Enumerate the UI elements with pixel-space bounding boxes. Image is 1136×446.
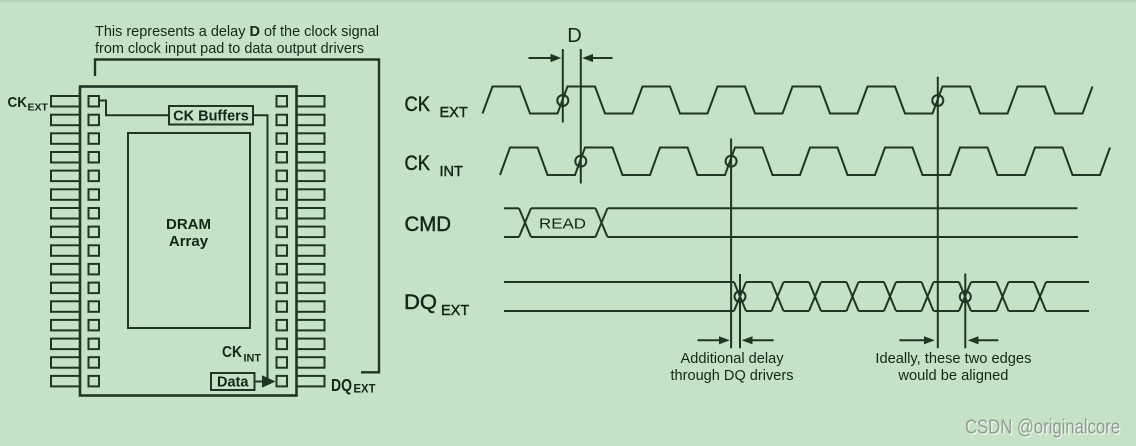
left external pins xyxy=(51,96,80,386)
node circle: CK_INT edge xyxy=(726,156,737,167)
signal label CK_EXT xyxy=(405,92,468,121)
svg-text:CK: CK xyxy=(405,151,431,175)
svg-text:through DQ drivers: through DQ drivers xyxy=(671,368,794,384)
svg-text:CSDN @originalcore: CSDN @originalcore xyxy=(965,417,1120,439)
svg-text:Additional delay: Additional delay xyxy=(681,351,785,367)
annotation text: delay note xyxy=(95,24,379,57)
node circle: CK_EXT edge xyxy=(932,95,943,106)
svg-text:INT: INT xyxy=(440,164,464,180)
pin label DQ_EXT xyxy=(331,375,376,396)
svg-text:DRAM: DRAM xyxy=(166,216,211,233)
svg-text:from clock input pad to data o: from clock input pad to data output driv… xyxy=(95,41,364,57)
annotation arrows: ideally aligned xyxy=(899,339,925,341)
wire: vertical from CK_EXT edge to DQ (alignment) xyxy=(937,77,939,349)
svg-text:CK: CK xyxy=(405,92,431,116)
node circle: CK_EXT edge at D xyxy=(557,95,568,106)
node circle: DQ transition xyxy=(735,291,746,302)
right bond pads xyxy=(277,96,288,386)
right external pins xyxy=(297,96,325,386)
D dimension ticks xyxy=(562,49,564,123)
waveform CK_EXT xyxy=(483,87,1093,114)
svg-text:EXT: EXT xyxy=(354,382,377,396)
tick: DQ transition (alignment) xyxy=(964,274,966,349)
svg-text:CMD: CMD xyxy=(405,212,452,236)
left bond pads xyxy=(89,96,100,386)
bus CMD top line xyxy=(504,207,519,209)
annotation text: additional delay xyxy=(671,351,794,384)
svg-text:would be aligned: would be aligned xyxy=(897,368,1008,384)
svg-text:CK: CK xyxy=(8,94,28,111)
svg-text:D: D xyxy=(567,25,581,47)
wire: vertical from CK_INT edge to DQ (additional delay) xyxy=(730,139,732,349)
wire: CK pad to CK Buffers xyxy=(99,101,169,116)
svg-text:Array: Array xyxy=(169,233,209,250)
node circle: CK_INT edge at D xyxy=(575,156,586,167)
svg-text:DQ: DQ xyxy=(331,375,352,395)
wire: Data to DQ pad with arrowhead xyxy=(255,381,264,383)
D dimension arrows xyxy=(529,57,553,59)
CK Buffers block xyxy=(169,106,253,125)
svg-text:INT: INT xyxy=(244,353,262,365)
signal label CK_INT xyxy=(405,151,464,180)
svg-text:CK: CK xyxy=(222,344,242,361)
svg-text:Data: Data xyxy=(217,375,249,391)
svg-text:CK Buffers: CK Buffers xyxy=(173,109,249,125)
svg-text:DQ: DQ xyxy=(404,290,437,314)
bus DQ crossovers xyxy=(734,282,1046,311)
bus CMD crossovers xyxy=(519,208,531,237)
wire: CK Buffers to data drivers (CK_INT) xyxy=(253,115,268,381)
pin label CK_EXT xyxy=(8,94,49,114)
svg-text:EXT: EXT xyxy=(28,102,49,114)
svg-text:EXT: EXT xyxy=(440,105,468,121)
svg-text:EXT: EXT xyxy=(441,303,469,319)
waveform CK_INT xyxy=(500,148,1110,176)
annotation text: ideally aligned xyxy=(875,351,1031,384)
node CK_INT label xyxy=(222,344,261,365)
bus CMD bottom line xyxy=(504,236,519,238)
Data block xyxy=(211,373,255,390)
DRAM Array block xyxy=(128,133,250,328)
wire: annotation bracket from note to CK pad and DQ pad xyxy=(95,60,379,373)
tick: DQ transition (additional delay) xyxy=(739,274,741,348)
node circle: DQ transition xyxy=(960,291,971,302)
annotation arrows: additional delay xyxy=(698,339,721,341)
svg-text:This represents a delay D of t: This represents a delay D of the clock s… xyxy=(95,24,379,40)
svg-text:Ideally, these two edges: Ideally, these two edges xyxy=(875,351,1031,367)
bus DQ bottom line xyxy=(504,310,1089,312)
signal label DQ_EXT xyxy=(404,290,469,319)
svg-text:READ: READ xyxy=(539,216,586,233)
bus DQ top line xyxy=(504,281,1089,283)
DRAM chip body U1 xyxy=(80,87,297,396)
